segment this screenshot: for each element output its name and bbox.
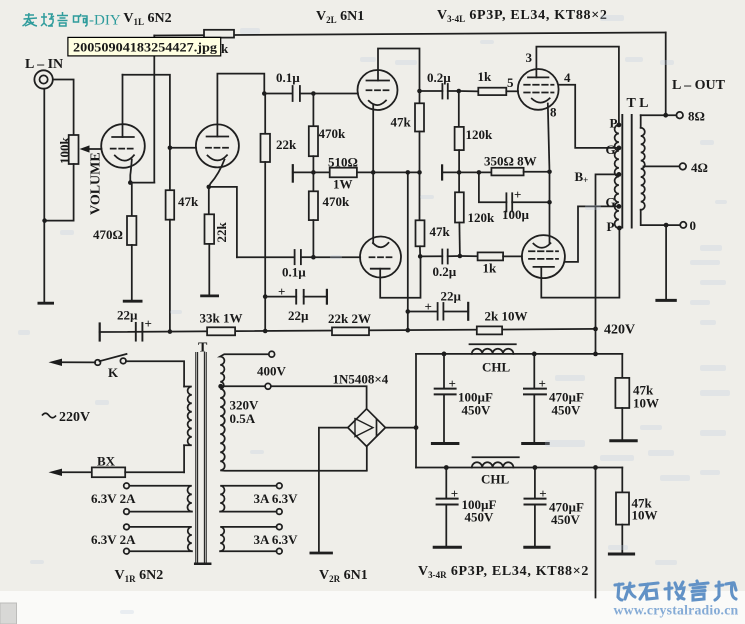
svg-text:0: 0 xyxy=(690,218,697,233)
capacitor 0.2u lower xyxy=(441,250,443,264)
wire cathode to coupling drop xyxy=(209,187,237,257)
resistor 470ohm xyxy=(127,216,136,245)
wire cathode to 470ohm xyxy=(131,183,133,216)
svg-text:450V: 450V xyxy=(465,510,495,525)
wire jack shield down to ground xyxy=(43,89,45,303)
middle 22u cap row xyxy=(265,296,296,298)
V2L-b cathode lead up to rail xyxy=(372,172,374,243)
resistor 47k (V1L plate load) xyxy=(166,190,175,220)
resistor 1k lower xyxy=(460,255,478,257)
wire to V1L-b grid xyxy=(170,147,196,149)
mains arrow lower (BX row) xyxy=(60,471,92,473)
svg-text:6.3V 2A: 6.3V 2A xyxy=(91,491,136,506)
gray scrollbar fragment xyxy=(0,603,17,624)
V3L pin4 screen wire to G tap xyxy=(559,85,619,148)
V2L-b plate wire to lower 0.2u node xyxy=(380,256,420,297)
resistor 47k upper (splitter chain) xyxy=(417,89,422,94)
cathode node xyxy=(128,180,133,185)
wire 22k to ground xyxy=(208,244,210,295)
svg-text:4: 4 xyxy=(564,70,571,85)
wire lower coupling row 0.1u xyxy=(237,256,295,258)
svg-text:8Ω: 8Ω xyxy=(688,109,705,124)
V1L-b plate lead xyxy=(217,74,264,137)
pentode V3L lower envelope xyxy=(522,235,565,278)
bus left terminal bar xyxy=(99,324,101,341)
svg-text:P: P xyxy=(610,116,618,131)
svg-text:L – OUT: L – OUT xyxy=(672,78,726,93)
ground (22k) xyxy=(202,294,218,297)
V3L pin3 lead xyxy=(536,47,619,125)
svg-text:22µ: 22µ xyxy=(441,289,462,304)
tail rail xyxy=(373,171,419,173)
V2L-b plate xyxy=(371,268,390,270)
ground (47k-2) xyxy=(609,553,633,556)
svg-text:5: 5 xyxy=(507,75,514,90)
svg-text:0.1µ: 0.1µ xyxy=(276,70,300,85)
svg-text:8: 8 xyxy=(550,105,557,120)
triode V1L-b envelope xyxy=(196,124,239,167)
svg-text:470k: 470k xyxy=(323,194,351,209)
ground (470uF-1) xyxy=(523,442,549,445)
bridge AC bottom lead xyxy=(366,446,368,470)
cathode common line down to lower tube xyxy=(549,172,551,244)
capacitor 0.1u (lower) xyxy=(294,250,296,264)
lower cathode arc xyxy=(533,243,550,248)
svg-text:22µ: 22µ xyxy=(117,308,138,323)
V1L-b cathode lead xyxy=(209,160,225,187)
V1L-b grid dashed xyxy=(206,147,229,149)
capacitor 100uF 450V (rail1) xyxy=(443,354,445,389)
junction grid V1L-b xyxy=(168,146,173,151)
V1L-a grid (dashed) xyxy=(111,148,135,150)
svg-text:22µ: 22µ xyxy=(288,308,309,323)
filter rail 2 xyxy=(416,467,622,469)
wire node to cap xyxy=(264,93,292,95)
0 wire xyxy=(641,210,680,225)
V1L-a plate xyxy=(112,136,134,138)
capacitor 100u cathode bypass xyxy=(479,172,507,202)
svg-text:100k: 100k xyxy=(57,137,72,165)
svg-text:CHL: CHL xyxy=(482,360,511,375)
wire 470ohm to ground xyxy=(131,245,133,301)
wire lower 0.2u row xyxy=(420,255,442,257)
tail drop wire to bus xyxy=(407,172,409,330)
svg-text:22k: 22k xyxy=(276,137,297,152)
watermark: kuang shi shou yin ji (blue) xyxy=(615,581,736,600)
R-channel B+ drop xyxy=(595,468,597,598)
svg-text:L – IN: L – IN xyxy=(25,57,63,72)
resistor 47k 10W (rail1) xyxy=(621,354,623,378)
svg-text:450V: 450V xyxy=(552,403,582,418)
choke CHL 2 xyxy=(472,462,514,467)
lower plate bar xyxy=(534,266,554,268)
svg-text:20050904183254427.jpg: 20050904183254427.jpg xyxy=(73,41,217,55)
switch K xyxy=(95,360,101,366)
V2L-b cathode arc xyxy=(373,243,389,247)
svg-text:3: 3 xyxy=(526,50,533,65)
resistor 120k lower xyxy=(458,172,460,192)
capacitor 470uF 450V (rail1) xyxy=(533,354,535,389)
resistor 47k lower (splitter chain) xyxy=(419,172,421,220)
svg-text:V2R 6N1: V2R 6N1 xyxy=(319,568,368,584)
wire jack to pot top xyxy=(53,80,74,136)
node 0.1u upper xyxy=(262,91,267,96)
wire: feedback vertical from top wire to V1L cathode xyxy=(153,36,155,183)
wire 320V tap to bridge xyxy=(221,385,265,387)
bridge DC+ wire xyxy=(385,427,416,429)
capacitor 22u (right, to other channel) xyxy=(408,311,438,313)
V3L grids dashed xyxy=(524,84,553,86)
ground (speaker 0) xyxy=(657,299,675,302)
lower pin4 screen wire to lower G tap xyxy=(565,206,619,262)
filter rail 1 xyxy=(416,353,622,355)
svg-text:120k: 120k xyxy=(468,210,496,225)
wire: feedback drop to 8-ohm tap xyxy=(665,33,667,116)
svg-text:2k 10W: 2k 10W xyxy=(485,309,528,324)
svg-text:+: + xyxy=(451,486,458,501)
svg-text:450V: 450V xyxy=(462,403,492,418)
svg-text:6.3V 2A: 6.3V 2A xyxy=(91,532,136,547)
svg-text:P: P xyxy=(607,219,615,234)
svg-text:G: G xyxy=(606,142,616,157)
V2L-a plate lead to 0.2u node xyxy=(378,49,420,92)
heater winding 3A 6.3V (2) xyxy=(220,527,276,551)
ground (47k-1) xyxy=(611,439,636,442)
svg-text:22k 2W: 22k 2W xyxy=(328,311,371,326)
triode V1L-a envelope xyxy=(101,124,145,168)
svg-text:G: G xyxy=(606,195,616,210)
ground (470uF-2) xyxy=(525,546,549,549)
HV secondary 400V/320V winding xyxy=(220,354,367,471)
svg-text:V1R 6N2: V1R 6N2 xyxy=(115,568,164,584)
svg-text:120k: 120k xyxy=(466,127,494,142)
svg-text:10W: 10W xyxy=(632,508,658,523)
V2L-a plate xyxy=(367,80,390,82)
wire cathode to 22k xyxy=(208,187,210,214)
svg-text:+: + xyxy=(539,376,546,391)
svg-text:T L: T L xyxy=(627,96,649,111)
svg-text:220V: 220V xyxy=(59,410,90,425)
svg-text:350Ω 8W: 350Ω 8W xyxy=(484,154,537,169)
svg-text:470k: 470k xyxy=(319,126,347,141)
resistor feedback (value hidden, "k") xyxy=(204,30,234,38)
wire upper 0.2u row xyxy=(420,90,443,92)
TL secondary winding xyxy=(641,128,645,210)
V2L-a cathode lead down to tail rail xyxy=(372,105,374,173)
svg-text:47k: 47k xyxy=(430,224,451,239)
svg-text:BX: BX xyxy=(97,454,116,469)
bridge DC- to ground xyxy=(319,428,348,552)
svg-text:+: + xyxy=(425,299,432,314)
junction xyxy=(42,218,47,223)
svg-text:1k: 1k xyxy=(478,69,493,84)
capacitor 470uF 450V (rail2) xyxy=(534,468,536,499)
fuse BX xyxy=(92,467,125,477)
DC+ riser joining both filter rails xyxy=(415,354,417,468)
bridge rectifier 1N5408 x4 xyxy=(348,409,386,447)
capacitor 0.2u upper xyxy=(441,84,443,99)
V3L cathode arc xyxy=(532,98,550,102)
0 terminal xyxy=(680,222,686,228)
pot wiper arrow xyxy=(88,148,101,150)
svg-text:0.2µ: 0.2µ xyxy=(433,264,457,279)
svg-text:4Ω: 4Ω xyxy=(691,160,708,175)
svg-text:1k: 1k xyxy=(483,261,498,276)
label ~220V xyxy=(42,413,56,418)
wire pot bottom to ground node xyxy=(45,164,74,221)
svg-text:400V: 400V xyxy=(257,364,287,379)
transformer T core xyxy=(195,353,197,563)
svg-text:1N5408×4: 1N5408×4 xyxy=(333,372,389,387)
transformer T primary winding xyxy=(184,387,192,446)
svg-text:470Ω: 470Ω xyxy=(93,227,123,242)
choke CHL 1 xyxy=(472,349,514,354)
mains arrow upper xyxy=(60,361,95,363)
resistor 510ohm 1W xyxy=(313,171,329,173)
svg-text:K: K xyxy=(108,365,119,380)
svg-text:100µ: 100µ xyxy=(502,207,530,222)
V1L-a cathode arc xyxy=(115,155,134,160)
svg-text:+: + xyxy=(539,486,546,501)
svg-text:0.2µ: 0.2µ xyxy=(427,70,451,85)
input jack L-IN xyxy=(34,70,52,88)
wire 0 to ground xyxy=(665,225,667,299)
svg-text:510Ω: 510Ω xyxy=(328,155,358,170)
ground (bridge minus) xyxy=(311,552,332,555)
triode V2L-b envelope xyxy=(360,237,401,278)
resistor 22k 2W xyxy=(332,327,369,335)
TL primary winding xyxy=(615,125,619,228)
node divider mid xyxy=(311,170,316,175)
420V node xyxy=(593,327,598,332)
wire: top feedback bus xyxy=(154,33,665,36)
resistor 120k upper xyxy=(458,91,460,127)
svg-text:V2L 6N1: V2L 6N1 xyxy=(316,9,364,25)
pentode V3L upper envelope xyxy=(518,69,559,110)
wire to V2L-a grid xyxy=(313,93,358,95)
svg-text:-DIY: -DIY xyxy=(89,13,121,29)
capacitor 0.1u (upper) xyxy=(292,86,294,101)
svg-text:420V: 420V xyxy=(604,323,635,338)
svg-text:10W: 10W xyxy=(633,396,659,411)
resistor 2k 10W xyxy=(477,326,502,334)
heater winding 3A 6.3V (1) xyxy=(220,486,276,512)
ground (470ohm) xyxy=(124,300,141,303)
svg-text:33k 1W: 33k 1W xyxy=(200,311,243,326)
8 ohm wire xyxy=(641,114,677,116)
wire switch to primary xyxy=(126,361,184,386)
resistor 47k 10W (rail2) xyxy=(621,468,623,493)
svg-text:22k: 22k xyxy=(214,222,229,243)
svg-text:0.1µ: 0.1µ xyxy=(282,265,306,280)
V2L-b grid dashed xyxy=(370,256,392,258)
8 ohm terminal xyxy=(676,112,683,119)
wire cathode node to feedback line xyxy=(130,182,154,184)
ground (input) xyxy=(39,302,53,305)
V2L-a cathode arc xyxy=(369,101,386,106)
resistor 33k 1W xyxy=(207,327,235,335)
svg-text:CHL: CHL xyxy=(481,472,510,487)
svg-text:VOLUME: VOLUME xyxy=(89,152,104,215)
stub terminal bar (left of 510) xyxy=(292,165,294,181)
420V supply bus xyxy=(100,329,596,332)
V1L-b plate xyxy=(207,136,229,138)
resistor 22k (V1L-b cathode) xyxy=(205,214,215,244)
svg-text:+: + xyxy=(514,187,521,202)
svg-text:T: T xyxy=(198,341,208,356)
stub terminal bar (left of 350) xyxy=(441,165,443,179)
400V terminal xyxy=(269,351,275,357)
svg-text:+: + xyxy=(145,316,152,331)
4 ohm terminal xyxy=(680,163,687,170)
wire 47k to 420V bus xyxy=(169,220,171,332)
svg-text:0.5A: 0.5A xyxy=(230,411,256,426)
svg-text:k: k xyxy=(221,41,229,56)
420V node to rail1 xyxy=(595,329,597,354)
ground (100uF-1) xyxy=(432,442,458,445)
V1L-a plate lead up xyxy=(122,75,124,137)
svg-text:+: + xyxy=(449,376,456,391)
lower pin3 plate wire to P bottom tap xyxy=(541,228,619,298)
tooltip box 20050904183254427.jpg xyxy=(68,37,221,56)
B+ tap wire down to 420V xyxy=(596,174,619,329)
svg-text:+: + xyxy=(278,284,285,299)
320V terminal xyxy=(265,383,271,389)
resistor 470k lower xyxy=(312,172,314,191)
svg-text:47k: 47k xyxy=(178,194,199,209)
heater winding 6.3V 2A (2) xyxy=(129,527,192,551)
V1L-b cathode arc xyxy=(208,155,228,160)
V3L plate bar xyxy=(528,76,548,78)
svg-text:450V: 450V xyxy=(551,512,581,527)
svg-text:47k: 47k xyxy=(391,115,412,130)
V1L-a cathode lead xyxy=(130,160,132,183)
svg-text:3A 6.3V: 3A 6.3V xyxy=(254,532,299,547)
svg-text:V1L 6N2: V1L 6N2 xyxy=(123,11,171,27)
4 ohm wire xyxy=(644,165,680,167)
resistor 470k upper xyxy=(312,94,314,127)
ground (100uF-2) xyxy=(434,546,460,549)
lower grids dashed xyxy=(529,250,558,252)
core bottom bar xyxy=(195,563,210,566)
TL primary taps xyxy=(617,123,622,128)
svg-text:1W: 1W xyxy=(333,177,353,192)
title (teal): fa shao yin xiang - DIY xyxy=(23,12,88,26)
capacitor 22u (bus left) xyxy=(135,323,137,341)
svg-text:www.crystalradio.cn: www.crystalradio.cn xyxy=(614,603,739,618)
svg-text:3A 6.3V: 3A 6.3V xyxy=(254,491,299,506)
resistor 350ohm 8W xyxy=(459,171,491,173)
V3L pin8 cathode lead xyxy=(548,104,550,172)
capacitor 100uF 450V (rail2) xyxy=(445,468,447,499)
triode V2L-a envelope xyxy=(358,70,398,110)
wire V1L-a plate to V1L-b grid / 47k xyxy=(123,75,170,191)
V2L-a grid dashed xyxy=(367,89,389,91)
320V tap junction xyxy=(218,384,223,389)
resistor 1k upper xyxy=(459,90,479,92)
transformer TL core xyxy=(621,115,623,228)
potentiometer 100k VOLUME xyxy=(69,135,79,164)
resistor 22k (plate load chain to bus) xyxy=(264,94,266,134)
heater winding 6.3V 2A (1) xyxy=(129,486,192,512)
